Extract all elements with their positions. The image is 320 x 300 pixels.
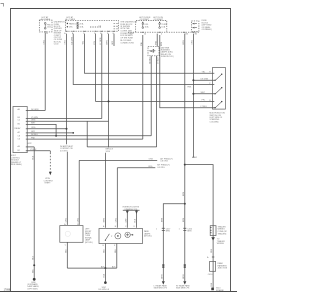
label: M/T PRNDL reference <box>157 165 170 169</box>
svg-text:RED: RED <box>211 248 213 253</box>
wire: assembly ground exit 2 <box>114 244 117 269</box>
inline connector C410 on right rear wire <box>179 228 192 232</box>
svg-text:ORG: ORG <box>77 217 79 222</box>
label: underhood fuse block (right of FB1) <box>54 22 67 46</box>
wire: rear lamps split to left rear <box>162 204 185 282</box>
DRL module diode symbol <box>149 49 155 52</box>
wire: jumper from row C down to row H <box>86 121 88 147</box>
inline splice mark right rear wire <box>184 264 186 267</box>
label: body control module <box>11 155 22 166</box>
svg-text:DK BLU: DK BLU <box>31 134 38 136</box>
assembly top pin labels <box>103 225 136 228</box>
junction block on trailer wire <box>208 261 228 286</box>
wire: FB2 pin F down (to park lamps), upper segment <box>107 34 109 148</box>
FB2 pins <box>64 31 115 35</box>
wire: ground tap down <box>104 268 106 283</box>
wire: park feed branch to A/T PRNDL (row y160.4) <box>79 159 157 161</box>
switch contact S2 (rows 3-4) <box>214 87 222 95</box>
svg-text:DK BLU: DK BLU <box>149 56 151 63</box>
svg-text:ORG: ORG <box>31 120 36 122</box>
junction dot on switch row 5 <box>108 100 110 102</box>
label: fuse block note (right of FB2) <box>120 22 137 45</box>
label: A/T PRNDL reference <box>160 157 173 162</box>
label: multifunction switch <box>210 113 226 124</box>
wire: FB4 pin B6 long feed down to rear lamps <box>183 34 185 204</box>
svg-text:BRN: BRN <box>183 191 185 196</box>
wire: pin F lower segment down to park/turn lamp assy <box>104 153 106 228</box>
svg-text:S114: S114 <box>106 151 110 153</box>
ground splice S206 <box>27 278 39 291</box>
svg-text:ORG: ORG <box>43 40 45 45</box>
wire: FB2 pin B down, turns right to switch row 3 <box>71 34 212 85</box>
svg-text:CONNECTORS: CONNECTORS <box>120 42 134 44</box>
long dashed fuse-panel bottom line <box>128 31 200 33</box>
svg-text:ON PANEL): ON PANEL) <box>202 28 212 31</box>
fuse block FB3 (passenger compartment, dashed) <box>136 17 167 32</box>
junction dot on pin B wire <box>72 132 74 134</box>
FB4 pins <box>183 32 197 35</box>
svg-text:DK GRN 0.8: DK GRN 0.8 <box>98 289 109 291</box>
svg-text:SIDE MKR LPS: SIDE MKR LPS <box>176 288 190 290</box>
svg-text:WIRING: WIRING <box>217 243 225 245</box>
svg-text:S2: S2 <box>195 157 197 159</box>
svg-text:YEL: YEL <box>202 72 206 74</box>
svg-text:B5: B5 <box>195 33 197 35</box>
wire: FB2 pin G stub <box>112 34 114 46</box>
svg-text:ORG: ORG <box>149 159 154 161</box>
arrow: to right rear lamps <box>176 281 191 289</box>
wire: left park lamp ground exit <box>66 242 68 268</box>
svg-text:PARK LP: PARK LP <box>69 22 78 25</box>
junction dot row F jumper <box>55 135 57 137</box>
inline splice mark left rear wire <box>162 264 164 267</box>
svg-text:14: 14 <box>144 33 146 35</box>
svg-text:BRN: BRN <box>183 217 185 222</box>
fuse DRL inside FB2 <box>67 26 84 29</box>
svg-text:C6: C6 <box>18 139 20 141</box>
svg-text:BRN: BRN <box>183 40 185 45</box>
FB3 pins <box>130 32 162 35</box>
svg-text:LEFT SIDE): LEFT SIDE) <box>27 288 38 290</box>
svg-text:0.8 ORG: 0.8 ORG <box>160 161 168 163</box>
ground bus wire <box>67 266 117 268</box>
svg-text:BRN: BRN <box>187 231 192 233</box>
fuse PARK inside FB4 <box>193 23 197 25</box>
fuse PARK LP inside FB2 <box>67 22 84 25</box>
svg-text:C2: C2 <box>18 120 20 122</box>
svg-text:C8: C8 <box>18 135 20 137</box>
pin labels on left park lamp <box>64 223 79 246</box>
svg-text:C2: C2 <box>99 25 101 27</box>
lamp symbol 2 inside assembly <box>125 232 133 237</box>
svg-text:ORG: ORG <box>116 217 118 222</box>
BCM pin row G + wire to FB3 DRL fuse <box>18 137 143 140</box>
svg-text:B2: B2 <box>18 150 20 152</box>
lamp filament in left park lamp <box>65 231 70 236</box>
svg-text:LT BLU: LT BLU <box>158 57 160 64</box>
svg-text:A6: A6 <box>18 108 20 111</box>
junction dot on ground bus <box>104 267 106 269</box>
label: lamp assembly <box>144 230 152 237</box>
svg-text:JUNCTION: JUNCTION <box>218 268 228 270</box>
svg-text:4: 4 <box>161 33 162 35</box>
svg-text:B6: B6 <box>18 124 20 126</box>
svg-text:BRN: BRN <box>166 231 171 233</box>
label: interior lights dimming system <box>123 207 140 211</box>
svg-text:(FRAME): (FRAME) <box>216 289 224 292</box>
svg-text:ORG: ORG <box>66 217 68 222</box>
label: DRL module <box>161 46 174 58</box>
ground splice S207 <box>98 281 109 291</box>
left front park/turn lamp box <box>60 226 83 243</box>
trailer wiring connector block <box>210 225 227 235</box>
wire: pin A wire lower segment to left park lamp <box>66 152 68 225</box>
wire: park feed branch to M/T PRNDL (row y167.8) <box>117 166 155 168</box>
inline connector C417 on left rear wire <box>156 228 170 232</box>
junction dot switch row 2 <box>192 79 194 81</box>
inline connector tick on trailer wire <box>207 256 214 259</box>
wire: DRL relay out 2 down to BCM row (x156.6) <box>157 56 160 147</box>
wire: dimming feed 2 into lamp assembly <box>135 210 138 228</box>
svg-text:C410: C410 <box>208 274 213 276</box>
svg-text:1: 1 <box>156 229 157 231</box>
arrow: to left rear lamps <box>154 281 168 289</box>
wire: FB3 TURN fuse into DRL relay <box>155 34 157 47</box>
BCM pin row E2 short <box>18 131 74 134</box>
svg-text:SIDE MKR LPS: SIDE MKR LPS <box>154 288 168 290</box>
headlamp/park lamp assembly box <box>99 229 143 244</box>
label: passenger fuse block (right of FB4) <box>202 20 212 31</box>
lamp symbol 1 inside assembly <box>111 233 121 239</box>
wire: left lamps ground feed down page (x34.2) <box>32 147 34 279</box>
fuse F1 PRK LP inside FB1 <box>44 23 51 30</box>
svg-text:COLUMN): COLUMN) <box>210 121 219 123</box>
svg-text:BRN: BRN <box>162 274 164 279</box>
svg-text:SIDE DASH): SIDE DASH) <box>11 163 22 166</box>
junction dot rear lamps split <box>184 203 186 205</box>
label: W/ ANTITHEFT note on wire <box>60 145 74 152</box>
BCM pin row E + wire to splice on pin A wire <box>15 127 67 130</box>
wire: branch down to lamp assembly pin B <box>116 168 118 228</box>
fuse block FB4 (small, dashed) <box>191 21 199 31</box>
fuse block FB1 (dashed) HOT AT ALL TIMES <box>39 16 52 32</box>
fuse 2 inside FB4 <box>193 27 197 29</box>
label: left front park/turn lamp <box>85 229 93 244</box>
svg-text:PPL: PPL <box>202 100 206 102</box>
wire: branch right to trailer harness <box>185 165 213 289</box>
body control module box BCM <box>13 107 27 153</box>
BCM pin row F + wire to DRL relay out1 <box>18 134 152 137</box>
svg-text:RELAY: RELAY <box>15 127 22 130</box>
svg-text:LT GRN: LT GRN <box>100 37 102 44</box>
svg-text:TRAILER): TRAILER) <box>218 233 227 236</box>
svg-text:LT BLU: LT BLU <box>201 106 208 108</box>
svg-text:ORG: ORG <box>148 166 153 168</box>
svg-text:B4: B4 <box>18 117 20 119</box>
BCM pin row A + wire to FB1 fuse <box>18 108 46 111</box>
wire: dashed anti-theft branch with arrow <box>44 151 54 185</box>
svg-text:LT BLU: LT BLU <box>30 149 37 151</box>
svg-text:BRN: BRN <box>107 40 109 45</box>
wire: right rear lamps feed down <box>183 204 185 282</box>
svg-text:LT GRN: LT GRN <box>31 117 38 119</box>
svg-text:C100: C100 <box>54 44 59 46</box>
svg-text:ORG: ORG <box>65 40 67 45</box>
wire: FB2 pin A ORG down (park feed, w/ splice to BCM) upper segment <box>65 34 67 145</box>
wire: assembly ground exit 1 <box>103 244 106 269</box>
wire: row H continues to DRL relay out2 <box>87 146 156 148</box>
splice dot on pin A wire at BCM row E <box>66 128 68 130</box>
svg-text:FUSE BLOCK): FUSE BLOCK) <box>161 56 174 58</box>
svg-text:ORG: ORG <box>31 127 36 129</box>
fuse TURN inside FB3 <box>159 22 167 29</box>
junction dot switch row 4 <box>192 93 194 95</box>
SW1 pin ticks <box>209 72 214 108</box>
DRL module box (dashed) <box>148 46 159 55</box>
wire: switch row 4 <box>193 92 212 94</box>
wire: FB1 fuse output ORG, down to BCM row A <box>43 33 45 111</box>
wire: FB2 pin C down, turns right to switch row 1 <box>83 34 213 74</box>
ground G110 <box>211 288 224 292</box>
svg-text:BRN: BRN <box>183 274 185 279</box>
svg-text:BRN: BRN <box>161 41 163 46</box>
svg-text:1: 1 <box>179 229 180 231</box>
wire: FB3 fuse TURN down, turns right to switch row 6 <box>160 35 213 108</box>
svg-text:GRY: GRY <box>28 143 33 145</box>
switch contact S1 (rows 1-2) <box>214 74 222 82</box>
FB2 internal connector marks <box>90 24 118 29</box>
wire: FB3 fuse DRL down to BCM row G <box>141 35 143 139</box>
svg-text:(W/ DRL): (W/ DRL) <box>144 236 152 238</box>
svg-text:A4: A4 <box>18 145 20 148</box>
svg-text:ALL TIMES: ALL TIMES <box>41 18 51 21</box>
wire: switch row 2 <box>193 79 212 81</box>
splice dot on left ground wire <box>33 264 35 266</box>
fuse block FB2 (underhood, dashed) HOT AT ALL TIMES <box>65 16 118 31</box>
svg-text:BRN: BRN <box>162 217 164 222</box>
svg-text:YEL: YEL <box>83 41 85 45</box>
svg-text:ORG: ORG <box>192 40 194 45</box>
wire: DRL relay out 1 down to BCM row (x151.2) <box>149 56 151 136</box>
svg-text:17888: 17888 <box>4 288 11 291</box>
svg-text:B6: B6 <box>186 33 188 35</box>
svg-text:DK GRN: DK GRN <box>31 109 39 111</box>
FB1 pin 15 <box>44 32 48 35</box>
wire: FB2 pin D down, turns right to switch row 5 <box>94 34 213 102</box>
svg-text:BRN: BRN <box>104 218 106 223</box>
BCM pin row H + wire tap to left lamps feed <box>18 143 35 148</box>
svg-text:0.8 ORG: 0.8 ORG <box>157 167 165 169</box>
svg-text:DK GRN: DK GRN <box>201 79 209 81</box>
svg-text:(W/ DRL): (W/ DRL) <box>85 242 93 244</box>
svg-text:0.8 ORG: 0.8 ORG <box>60 150 68 152</box>
svg-text:THEFT: THEFT <box>44 183 51 185</box>
junction dot rear feed split right branch <box>184 164 186 166</box>
multifunction switch box SW1 <box>213 68 226 110</box>
switch contact S3 (rows 5-6) <box>214 101 222 109</box>
svg-text:15: 15 <box>46 33 48 35</box>
fuse DRL inside FB3 <box>142 22 149 29</box>
BCM pin row J + short GRY wire to dashed arrow <box>18 149 51 152</box>
svg-text:DK GRN: DK GRN <box>71 37 73 45</box>
BCM pin row C + wire joining pin F feed <box>18 120 109 122</box>
label: BRN wire note <box>106 149 113 153</box>
svg-text:DRL: DRL <box>69 27 73 29</box>
arrow: trailer wiring tap <box>211 237 225 253</box>
svg-text:PPL: PPL <box>94 41 96 45</box>
switch symbol inside assembly <box>105 234 110 241</box>
svg-text:A2: A2 <box>18 131 20 134</box>
wire: branch down to left park lamp pin B <box>77 160 79 225</box>
svg-text:C2: C2 <box>130 33 132 35</box>
BCM pin row B + wire to FB2 pin E <box>18 117 102 119</box>
wire: dimming feed 1 into lamp assembly <box>126 210 129 228</box>
wire: FB2 pin E down to BCM row B <box>100 34 102 119</box>
wire: FB4 pin B5 down feeding switch rows 2 and 4 <box>192 34 197 160</box>
BCM pin row D + jumper down to row F <box>18 123 57 136</box>
